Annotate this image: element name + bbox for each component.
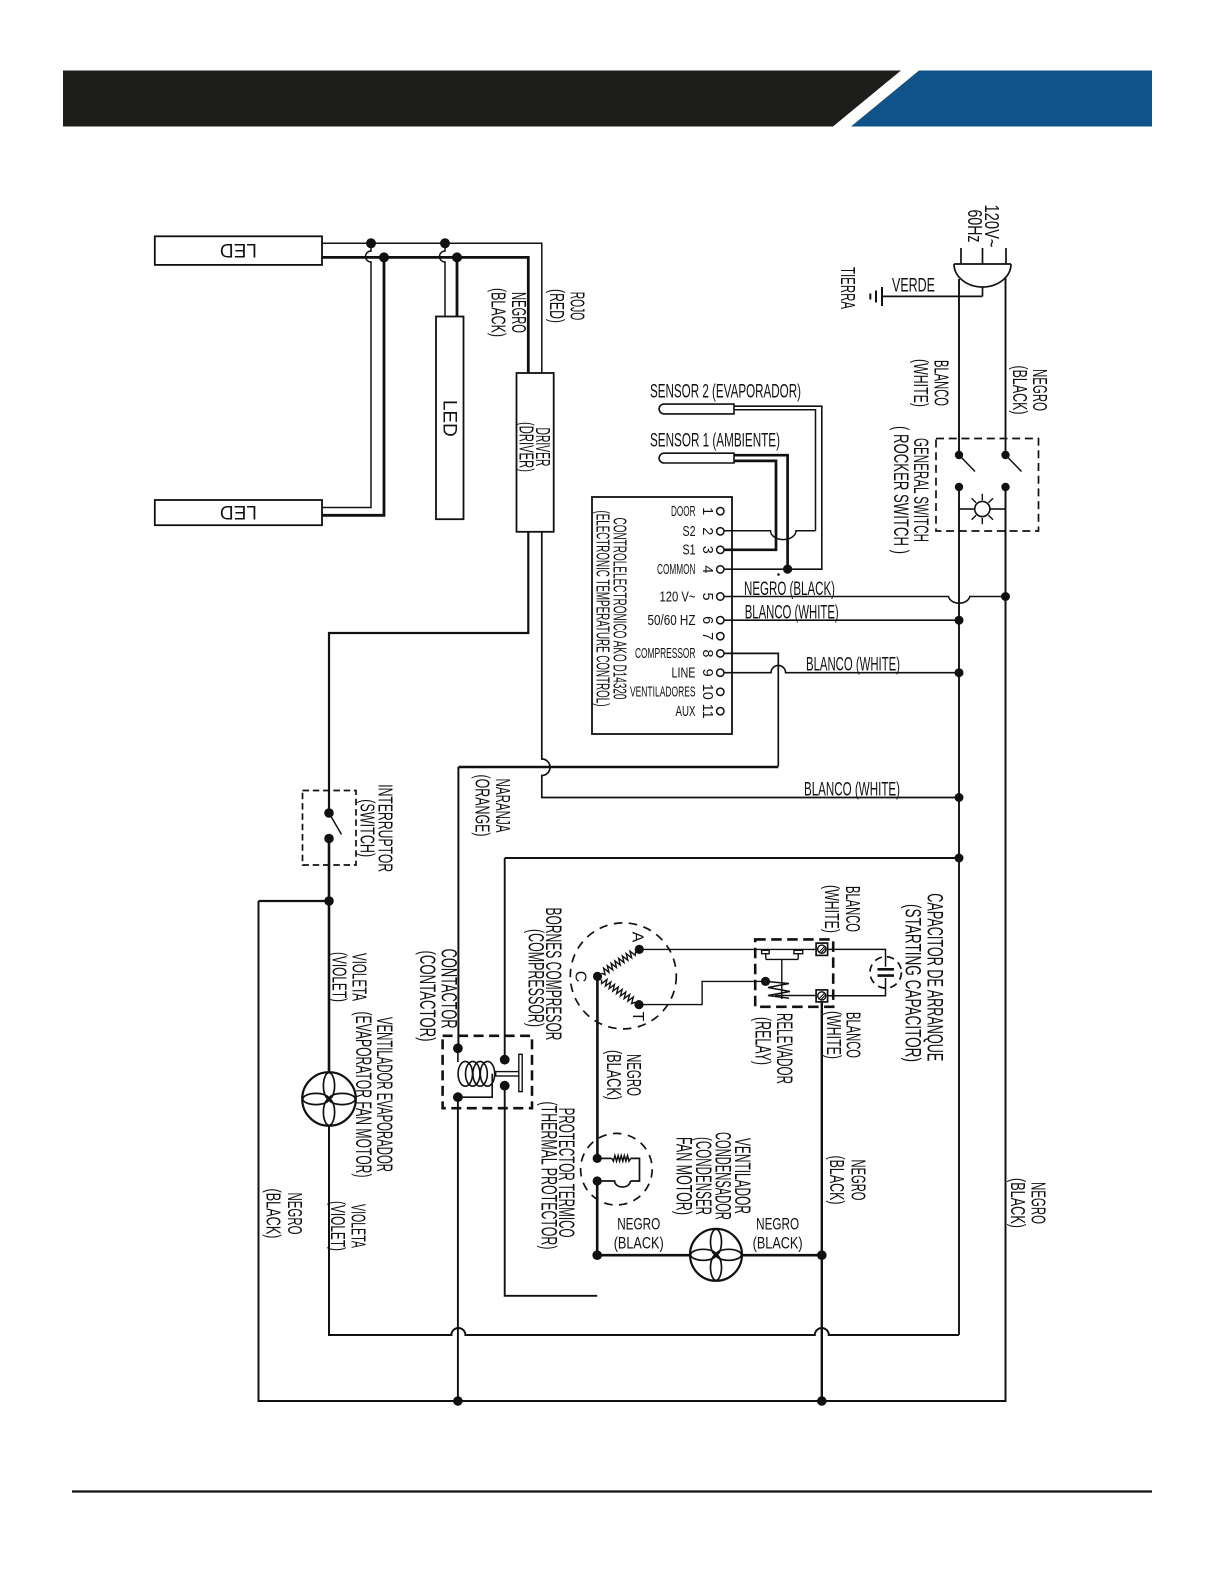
svg-text:VIOLETA: VIOLETA (347, 1204, 369, 1248)
svg-text:NEGRO: NEGRO (1027, 1182, 1049, 1224)
svg-text:FAN MOTOR): FAN MOTOR) (672, 1137, 697, 1215)
svg-text:(EVAPORATOR FAN MOTOR): (EVAPORATOR FAN MOTOR) (351, 1012, 376, 1178)
svg-text:SENSOR 2 (EVAPORADOR): SENSOR 2 (EVAPORADOR) (650, 382, 801, 403)
svg-text:DOOR: DOOR (671, 504, 696, 520)
svg-text:NEGRO: NEGRO (847, 1160, 869, 1201)
svg-text:(BLACK): (BLACK) (261, 1189, 283, 1239)
svg-text:4: 4 (699, 565, 715, 573)
svg-text:VERDE: VERDE (892, 276, 935, 297)
svg-text:NEGRO: NEGRO (1028, 369, 1050, 411)
svg-text:6: 6 (699, 616, 715, 624)
svg-text:(THERMAL PROTECTOR): (THERMAL PROTECTOR) (536, 1102, 561, 1250)
svg-text:(BLACK): (BLACK) (825, 1156, 847, 1205)
svg-text:LINE: LINE (672, 666, 696, 682)
svg-text:BLANCO (WHITE): BLANCO (WHITE) (745, 603, 839, 624)
svg-text:BLANCO (WHITE): BLANCO (WHITE) (806, 655, 900, 676)
svg-text:ROJO: ROJO (566, 292, 588, 321)
svg-text:NEGRO: NEGRO (756, 1215, 799, 1234)
svg-text:VIOLETA: VIOLETA (347, 953, 369, 1001)
svg-text:VENTILADORES: VENTILADORES (630, 685, 696, 701)
svg-text:NEGRO: NEGRO (617, 1215, 660, 1234)
svg-text:(DRIVER): (DRIVER) (515, 422, 537, 472)
svg-text:BLANCO: BLANCO (841, 886, 863, 932)
svg-text:(WHITE): (WHITE) (822, 1011, 844, 1059)
svg-text:SENSOR 1 (AMBIENTE): SENSOR 1 (AMBIENTE) (650, 431, 780, 452)
svg-text:3: 3 (699, 546, 715, 554)
svg-text:(VIOLET): (VIOLET) (326, 1201, 348, 1251)
svg-text:(ELECTRONIC TEMPERATURE CONTRO: (ELECTRONIC TEMPERATURE CONTROL) (593, 511, 613, 707)
svg-text:( ROCKER SWITCH ): ( ROCKER SWITCH ) (889, 426, 912, 554)
svg-text:(WHITE): (WHITE) (820, 885, 842, 933)
svg-text:(COMPRESSOR): (COMPRESSOR) (524, 929, 549, 1027)
svg-text:10: 10 (699, 684, 715, 700)
svg-text:(BLACK): (BLACK) (486, 288, 508, 337)
svg-text:8: 8 (699, 649, 715, 657)
svg-text:NARANJA: NARANJA (491, 779, 513, 833)
svg-text:C: C (572, 971, 589, 983)
svg-text:S2: S2 (683, 524, 696, 540)
svg-text:BLANCO (WHITE): BLANCO (WHITE) (804, 780, 900, 801)
svg-text:(CONTACTOR): (CONTACTOR) (415, 951, 440, 1042)
svg-text:T: T (629, 1012, 646, 1022)
svg-text:S1: S1 (683, 543, 696, 559)
svg-text:(BLACK): (BLACK) (753, 1234, 803, 1253)
svg-text:9: 9 (699, 669, 715, 677)
svg-text:5: 5 (699, 592, 715, 600)
svg-text:(STARTING CAPACITOR): (STARTING CAPACITOR) (901, 904, 926, 1062)
svg-text:(BLACK): (BLACK) (614, 1234, 664, 1253)
svg-text:A: A (629, 932, 646, 943)
svg-text:NEGRO (BLACK): NEGRO (BLACK) (744, 579, 835, 600)
svg-text:2: 2 (699, 527, 715, 535)
svg-text:(VIOLET): (VIOLET) (327, 952, 349, 1002)
svg-text:7: 7 (699, 632, 715, 640)
svg-text:120 V~: 120 V~ (660, 589, 696, 605)
svg-text:LED: LED (220, 501, 257, 522)
svg-text:NEGRO: NEGRO (283, 1193, 305, 1235)
svg-text:1: 1 (699, 507, 715, 515)
svg-text:BLANCO: BLANCO (930, 360, 952, 406)
svg-text:(BLACK): (BLACK) (1008, 366, 1030, 415)
svg-text:(RED): (RED) (545, 289, 567, 323)
svg-text:NEGRO: NEGRO (622, 1054, 644, 1096)
svg-text:COMPRESSOR: COMPRESSOR (635, 646, 696, 662)
svg-text:NEGRO: NEGRO (507, 292, 529, 333)
svg-text:60Hz: 60Hz (963, 210, 985, 243)
svg-text:LED: LED (220, 239, 257, 260)
svg-text:AUX: AUX (676, 704, 696, 720)
svg-text:(BLACK): (BLACK) (1006, 1178, 1028, 1228)
svg-text:(BLACK): (BLACK) (602, 1050, 624, 1100)
svg-text:LED: LED (439, 400, 460, 437)
svg-text:(RELAY): (RELAY) (751, 1017, 776, 1065)
svg-text:(SWITCH): (SWITCH) (355, 799, 377, 857)
svg-text:TIERRA: TIERRA (836, 267, 858, 309)
svg-text:50/60 HZ: 50/60 HZ (648, 613, 696, 629)
svg-text:BLANCO: BLANCO (842, 1012, 864, 1058)
svg-text:11: 11 (699, 704, 715, 719)
svg-text:(ORANGE): (ORANGE) (470, 775, 492, 837)
svg-text:COMMON: COMMON (657, 562, 696, 578)
svg-text:(WHITE): (WHITE) (909, 359, 931, 407)
